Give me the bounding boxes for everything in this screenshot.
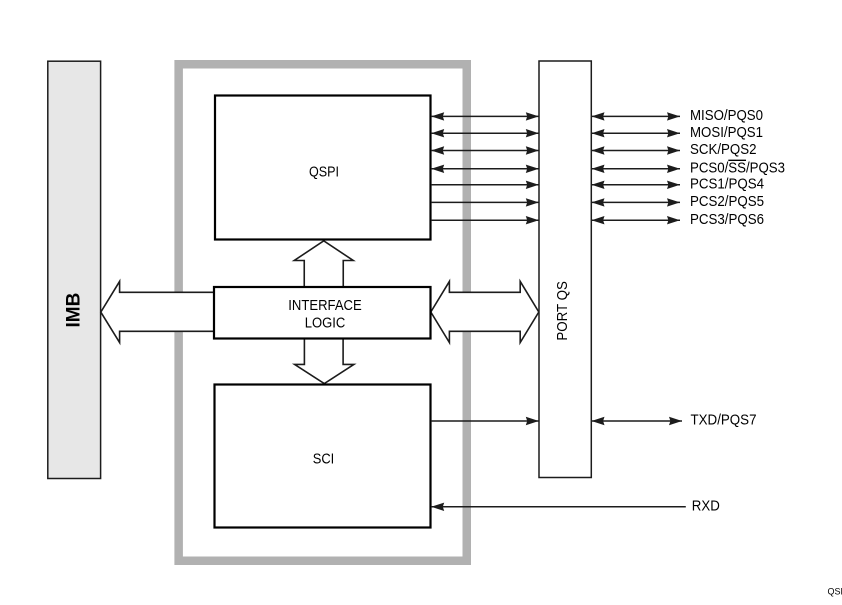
- hollow bus arrow INTERFACE LOGIC down into SCI: [295, 338, 354, 384]
- svg-text:LOGIC: LOGIC: [305, 315, 346, 332]
- wire QSPI-PORTQS row5: [431, 184, 539, 186]
- wire QSPI-PORTQS row1: [431, 115, 539, 117]
- svg-text:PCS0/SS/PQS3: PCS0/SS/PQS3: [690, 159, 785, 176]
- block QSPI: [215, 96, 431, 240]
- hollow bus arrow INTERFACE LOGIC up into QSPI: [294, 241, 353, 288]
- hollow bus arrow INTERFACE LOGIC to PORT QS (double headed): [431, 281, 539, 342]
- pin wire PCS0/SS/PQS3: [592, 168, 681, 170]
- block PORT QS: [539, 61, 591, 478]
- wire QSPI-PORTQS row2: [431, 132, 539, 134]
- svg-text:PCS3/PQS6: PCS3/PQS6: [690, 211, 764, 228]
- wire QSPI-PORTQS row4: [431, 168, 539, 170]
- svg-text:QSPI: QSPI: [309, 163, 339, 180]
- svg-text:RXD: RXD: [692, 497, 720, 514]
- hollow bus arrow IMB to INTERFACE LOGIC (points left into IMB): [101, 281, 214, 342]
- block IMB (gray bus bar): [48, 61, 101, 478]
- wire QSPI-PORTQS row3: [431, 150, 539, 152]
- module boundary (thick gray rectangle): [179, 64, 467, 561]
- svg-text:PCS2/PQS5: PCS2/PQS5: [690, 193, 764, 210]
- svg-text:SCK/PQS2: SCK/PQS2: [690, 141, 757, 158]
- svg-text:PORT QS: PORT QS: [554, 281, 571, 341]
- svg-text:MISO/PQS0: MISO/PQS0: [690, 107, 763, 124]
- block INTERFACE LOGIC: [214, 287, 431, 339]
- svg-text:SCI: SCI: [313, 451, 335, 468]
- svg-text:INTERFACE: INTERFACE: [288, 297, 362, 314]
- pin wire MISO/PQS0: [592, 115, 681, 117]
- svg-text:IMB: IMB: [63, 293, 84, 328]
- wire QSPI-PORTQS row7: [431, 219, 539, 221]
- svg-text:TXD/PQS7: TXD/PQS7: [691, 412, 757, 429]
- pin wire MOSI/PQS1: [592, 132, 681, 134]
- pin wire PCS3/PQS6: [592, 219, 681, 221]
- pin wire TXD/PQS7: [592, 420, 683, 422]
- svg-text:PCS1/PQS4: PCS1/PQS4: [690, 175, 764, 192]
- svg-text:MOSI/PQS1: MOSI/PQS1: [690, 124, 763, 141]
- wire QSPI-PORTQS row6: [431, 201, 539, 203]
- pin wire PCS2/PQS5: [592, 201, 681, 203]
- pin wire PCS1/PQS4: [592, 184, 681, 186]
- svg-text:QSM B: QSM B: [828, 587, 842, 597]
- pin wire RXD into SCI: [431, 506, 686, 508]
- pin wire SCK/PQS2: [592, 150, 681, 152]
- wire SCI to PORTQS (TXD): [431, 420, 539, 422]
- overline over SS: [728, 159, 746, 161]
- block SCI: [215, 385, 431, 528]
